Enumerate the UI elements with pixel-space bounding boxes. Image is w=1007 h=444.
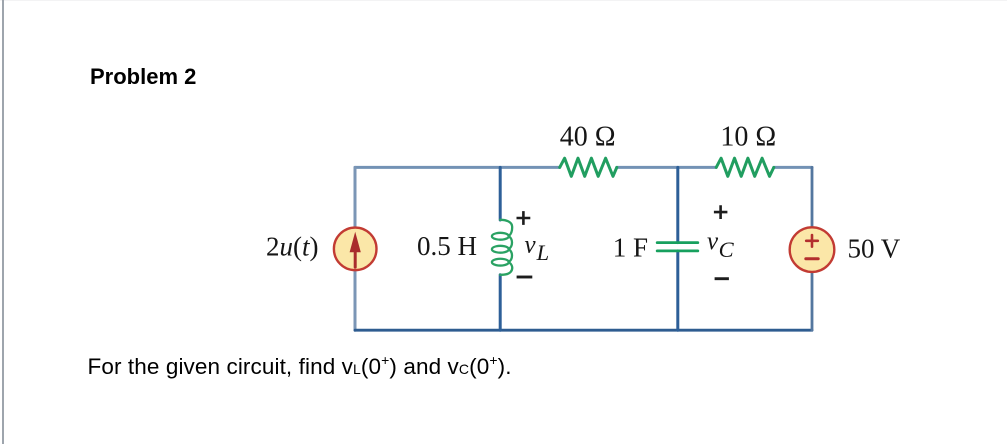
svg-text:40 Ω: 40 Ω (560, 121, 616, 152)
svg-text:vL: vL (525, 231, 550, 265)
svg-text:vC: vC (707, 228, 735, 262)
label: vC polarity plus (714, 205, 728, 219)
label: vC polarity minus (715, 277, 729, 280)
svg-text:1 F: 1 F (613, 232, 648, 262)
current source I1 arrow (354, 250, 357, 267)
question text (88, 356, 512, 381)
svg-text:50 V: 50 V (848, 234, 901, 264)
resistor R2 10-ohm zigzag (716, 158, 774, 176)
heading: Problem 2 (90, 66, 196, 88)
wire: top-right segment (10-ohm to right corner) (774, 166, 812, 169)
svg-text:10 Ω: 10 Ω (720, 122, 776, 153)
wire: capacitor branch lower (676, 251, 679, 330)
resistor R1 40-ohm zigzag (560, 158, 617, 176)
wire: right branch (through 50V source) (811, 167, 814, 330)
label: vL polarity plus (517, 211, 531, 225)
top page divider line (0, 0, 1007, 1)
voltage source V1 circle (790, 227, 835, 272)
wire: bottom rail (355, 329, 812, 332)
wire: top middle segment (40-ohm to 10-ohm) (617, 166, 716, 169)
inductor L1 coil (492, 220, 512, 275)
svg-text:2u(t): 2u(t) (266, 231, 319, 261)
voltage source V1 minus sign (806, 257, 818, 260)
svg-text:0.5 H: 0.5 H (417, 231, 477, 261)
wire: inductor branch lower (499, 275, 502, 330)
left page border line (2, 0, 4, 444)
wire: top-left segment (node A to 40-ohm) (355, 166, 560, 169)
label: vL polarity minus (517, 276, 533, 279)
wire: capacitor branch upper (676, 167, 679, 242)
current source I1 circle (334, 228, 377, 271)
voltage source V1 plus sign (806, 235, 818, 247)
wire: left branch (through current source) (354, 167, 357, 330)
capacitor C1 plates (657, 243, 698, 251)
wire: inductor branch upper (499, 167, 502, 220)
